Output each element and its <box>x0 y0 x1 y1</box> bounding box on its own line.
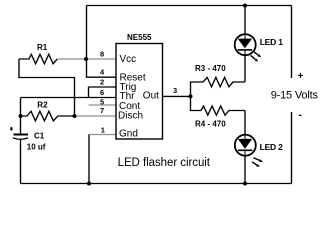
svg-text:Vcc: Vcc <box>120 54 137 65</box>
node junction top rail/LED1 <box>243 4 247 8</box>
wire top rail <box>87 5 292 7</box>
wire R4 to LED2 <box>244 111 246 135</box>
node junction Disch/R1/R2 <box>73 114 77 118</box>
svg-text:R3 - 470: R3 - 470 <box>195 64 226 73</box>
wire right rail lower <box>291 112 293 184</box>
wire R1 left to Disch path <box>19 59 75 116</box>
svg-text:+: + <box>298 71 304 82</box>
wire pin 6 Thr run <box>21 97 117 99</box>
wire pin 3 Out <box>163 95 191 97</box>
wire out node up to R3 <box>191 82 204 96</box>
wire right rail upper <box>291 6 293 79</box>
node junction bottom rail/pin1 <box>87 182 91 186</box>
wire pin 1 Gnd stub <box>89 134 116 136</box>
wire R3 to LED1 <box>244 55 246 82</box>
svg-text:LED 1: LED 1 <box>260 37 284 47</box>
svg-text:6: 6 <box>100 88 104 97</box>
LED 2 symbol <box>235 135 263 167</box>
wire pin 5 Cont stub <box>89 104 117 106</box>
svg-text:8: 8 <box>100 49 104 58</box>
wire out node down to R4 <box>191 96 202 110</box>
wire LED2 bottom drop <box>244 156 246 184</box>
node junction pin8/Vplus <box>84 57 88 61</box>
wire pin 8 Vcc run <box>57 58 116 60</box>
wire LED1 top drop <box>244 6 246 35</box>
svg-text:C1: C1 <box>34 132 45 141</box>
svg-text:10 uf: 10 uf <box>27 142 46 151</box>
wire pin 7 Disch run <box>75 115 117 117</box>
wire left rail (pin6 to C1) <box>20 98 22 135</box>
node junction bottom rail/LED2 <box>243 182 247 186</box>
svg-text:Disch: Disch <box>118 110 143 121</box>
svg-text:LED flasher circuit: LED flasher circuit <box>118 157 211 169</box>
svg-text:LED 2: LED 2 <box>260 142 284 152</box>
svg-text:1: 1 <box>101 125 105 134</box>
op-amp U1 NE555 box <box>116 44 163 140</box>
svg-text:2: 2 <box>100 78 104 87</box>
wire bottom rail <box>21 183 292 185</box>
node junction R2 left/C1 <box>19 114 23 118</box>
wire C1 bottom stem <box>20 140 22 184</box>
svg-text:R4 - 470: R4 - 470 <box>195 119 226 128</box>
resistor R3 <box>203 77 245 86</box>
svg-text:Gnd: Gnd <box>119 128 138 139</box>
svg-text:9-15 Volts: 9-15 Volts <box>271 90 319 102</box>
svg-text:-: - <box>299 110 302 121</box>
wire pin 1 drop to bottom rail <box>88 135 90 184</box>
wire Trig-Thr tie <box>88 87 90 98</box>
svg-text:3: 3 <box>173 86 177 95</box>
capacitor C1 <box>10 127 28 139</box>
wire pin 4 Reset stub <box>87 59 117 77</box>
svg-text:7: 7 <box>100 106 104 115</box>
resistor R4 <box>201 106 245 115</box>
node junction Out/R3/R4 <box>189 94 193 98</box>
svg-text:R2: R2 <box>37 100 48 109</box>
wire pin 2 Trig stub <box>88 86 116 88</box>
svg-text:Out: Out <box>143 91 159 102</box>
LED 1 symbol <box>235 34 262 62</box>
resistor R1 <box>19 54 57 64</box>
wire V+ drop to pin 8 <box>86 6 88 60</box>
svg-text:NE555: NE555 <box>127 33 152 42</box>
svg-text:R1: R1 <box>37 43 48 52</box>
resistor R2 <box>21 111 75 121</box>
